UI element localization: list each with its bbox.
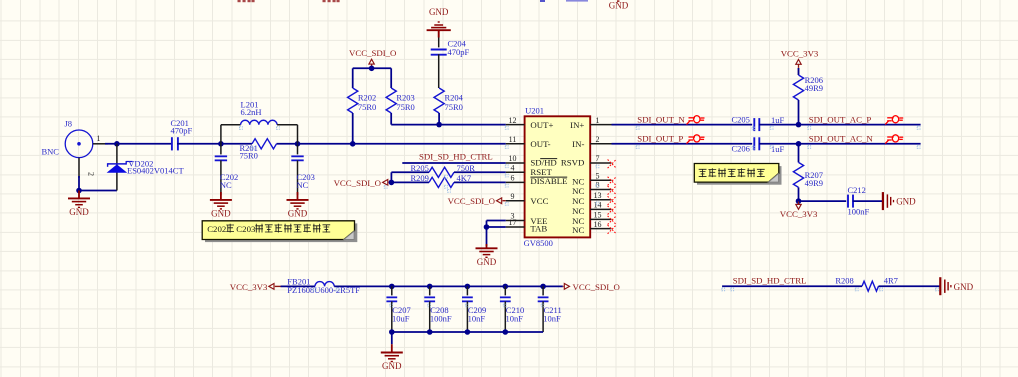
svg-text:13: 13 xyxy=(594,191,602,200)
node: junction VEE/TAB xyxy=(484,224,490,230)
wire: DISABLE branch xyxy=(391,181,429,183)
wire: to C212 xyxy=(799,200,847,202)
svg-text:GND: GND xyxy=(954,282,974,292)
svg-text:NC: NC xyxy=(572,225,584,235)
svg-text:R202: R202 xyxy=(358,92,376,102)
resistor R202 xyxy=(352,68,354,88)
ground below C203 xyxy=(297,192,299,200)
pin 9 of U201 (left) xyxy=(506,200,525,202)
ground below C202 xyxy=(220,192,222,200)
svg-text:SDI_SD_HD_CTRL: SDI_SD_HD_CTRL xyxy=(419,151,493,161)
capacitor C212 xyxy=(847,195,849,208)
svg-text:4R7: 4R7 xyxy=(884,275,898,285)
node: junction bottom rail xyxy=(389,329,395,335)
svg-text:GND: GND xyxy=(477,257,497,267)
svg-text:GND: GND xyxy=(896,197,916,207)
node: junction VCC_SDI_O tap xyxy=(389,180,395,186)
svg-text:470pF: 470pF xyxy=(171,126,193,136)
resistor R203 xyxy=(390,68,392,88)
svg-text:NC: NC xyxy=(572,206,584,216)
node: junction top of C208 xyxy=(427,284,433,290)
node: junction top of C210 xyxy=(503,284,509,290)
svg-text:9: 9 xyxy=(511,192,515,201)
node: junction bottom rail xyxy=(503,329,509,335)
svg-text:GND: GND xyxy=(211,208,231,218)
differential pair marker (SDI_OUT_AC_N) xyxy=(885,135,903,144)
resistor R201 xyxy=(252,139,277,149)
svg-text:10nF: 10nF xyxy=(468,313,486,323)
svg-text:75R0: 75R0 xyxy=(358,102,376,112)
wire: R203/R204 to U201 pin 12 xyxy=(391,124,506,126)
node: junction at BNC ground corner xyxy=(76,188,82,194)
svg-text:17: 17 xyxy=(509,218,517,227)
node: junction at C202 / L201 left xyxy=(218,141,224,147)
svg-text:R209: R209 xyxy=(411,173,429,183)
svg-text:2: 2 xyxy=(87,172,96,176)
svg-text:10nF: 10nF xyxy=(506,313,524,323)
resistor R204 xyxy=(434,88,444,113)
svg-text:J8: J8 xyxy=(65,119,73,129)
node: junction top of C211 xyxy=(540,284,546,290)
node: junction at R207 xyxy=(796,141,802,147)
capacitor C211 xyxy=(542,286,544,295)
svg-text:VCC_SDI_O: VCC_SDI_O xyxy=(334,178,381,188)
pin 7 of U201 (right) xyxy=(590,162,611,164)
pin 13 of U201 (right) xyxy=(590,199,611,201)
svg-text:10nF: 10nF xyxy=(543,313,561,323)
resistor R207 xyxy=(798,144,800,163)
wire: SDI_OUT_P from pin 2 to C206 xyxy=(612,143,753,145)
svg-text:SDI_OUT_P: SDI_OUT_P xyxy=(637,134,683,144)
wire: C212 to ground xyxy=(853,200,883,202)
power port VCC_3V3 (bottom) xyxy=(796,204,801,209)
wire: top cut-off text remnants xyxy=(238,0,241,2)
pin 4 of U201 (left) xyxy=(506,171,525,173)
svg-text:1: 1 xyxy=(97,134,101,143)
svg-text:VCC_SDI_O: VCC_SDI_O xyxy=(349,48,396,58)
svg-text:C202: C202 xyxy=(207,224,226,234)
wire: RSET branch xyxy=(390,172,392,182)
svg-text:RSVD: RSVD xyxy=(561,158,584,168)
no-connect marks on U201 NC pins xyxy=(608,160,617,169)
svg-text:11: 11 xyxy=(509,135,517,144)
svg-text:15: 15 xyxy=(594,211,602,220)
svg-text:4K7: 4K7 xyxy=(457,173,472,183)
svg-text:470pF: 470pF xyxy=(448,47,470,57)
pin 16 of U201 (right) xyxy=(590,228,611,230)
differential pair marker (SDI_OUT_N) xyxy=(687,116,705,125)
differential pair marker (SDI_OUT_P) xyxy=(687,135,705,144)
wire: VCC_3V3 to FB201 xyxy=(281,285,315,287)
svg-text:VCC_3V3: VCC_3V3 xyxy=(780,209,818,219)
pin 2 of U201 (right) xyxy=(590,143,611,145)
diode VD202 (TVS, cathode bar up with zener hooks) xyxy=(116,144,118,191)
svg-text:750R: 750R xyxy=(457,163,476,173)
svg-text:VCC_SDI_O: VCC_SDI_O xyxy=(573,282,620,292)
note: C202/C203 impedance matching (yellow sticky) xyxy=(202,221,357,242)
svg-text:C205: C205 xyxy=(732,114,750,124)
svg-text:NC: NC xyxy=(572,196,584,206)
pin 1 of J8 xyxy=(93,143,108,145)
svg-text:100nF: 100nF xyxy=(848,206,870,216)
svg-text:16: 16 xyxy=(594,220,602,229)
svg-text:75R0: 75R0 xyxy=(396,102,414,112)
svg-text:C203: C203 xyxy=(236,224,256,234)
wire: R208 to ground xyxy=(879,285,941,287)
connector J8 (BNC) xyxy=(65,130,93,158)
wire: R201 span left lead xyxy=(221,143,252,145)
capacitor C206 xyxy=(753,137,755,150)
svg-text:NC: NC xyxy=(297,180,309,190)
note: mind differential polarity (yellow sticky) xyxy=(694,164,781,185)
svg-text:C212: C212 xyxy=(848,185,866,195)
svg-text:4: 4 xyxy=(511,164,515,173)
ground below C207 xyxy=(391,332,393,344)
svg-text:SDI_OUT_AC_P: SDI_OUT_AC_P xyxy=(809,114,872,124)
ground below U201 xyxy=(486,244,488,248)
capacitor C207 xyxy=(391,286,393,295)
svg-text:NC: NC xyxy=(220,180,232,190)
node: junction top of C209 xyxy=(465,284,471,290)
svg-text:R205: R205 xyxy=(411,163,429,173)
svg-text:7: 7 xyxy=(596,154,600,163)
node: junction at VCC_3V3 / C212 xyxy=(796,198,802,204)
resistor R209 xyxy=(429,177,454,187)
svg-text:14: 14 xyxy=(594,201,602,210)
svg-text:1uF: 1uF xyxy=(771,115,785,125)
svg-text:GND: GND xyxy=(382,361,402,371)
pin 8 of U201 (right) xyxy=(590,189,611,191)
svg-text:IN-: IN- xyxy=(572,139,584,149)
wire: VEE pin 3 xyxy=(487,220,506,222)
capacitor C204 xyxy=(438,38,440,48)
capacitor C209 xyxy=(466,286,468,295)
svg-text:10: 10 xyxy=(509,154,517,163)
wire: R201 span right lead xyxy=(277,143,298,145)
svg-text:GND: GND xyxy=(429,7,449,17)
resistor R205 xyxy=(429,167,454,177)
svg-text:ES0402V014CT: ES0402V014CT xyxy=(127,166,184,176)
pin 3 of U201 (left) xyxy=(506,220,525,222)
svg-text:5: 5 xyxy=(596,172,600,181)
node: junction at R206 xyxy=(796,122,802,128)
wire: SDI_SD_HD_CTRL to U201 pin 10 xyxy=(402,162,506,164)
wire: J8 pin2 bottom rail xyxy=(78,176,80,191)
wire: FB201 to VCC_SDI_O port xyxy=(334,285,563,287)
svg-text:OUT+: OUT+ xyxy=(530,120,553,130)
capacitor C210 xyxy=(504,286,506,295)
node: junction top of C207 xyxy=(389,284,395,290)
node: junction at R204 bottom xyxy=(436,122,442,128)
wire: main line to U201 pin 11 xyxy=(298,143,506,145)
svg-text:U201: U201 xyxy=(525,106,544,116)
pin 11 of U201 (left) xyxy=(506,143,525,145)
svg-text:BNC: BNC xyxy=(42,147,60,157)
svg-text:49R9: 49R9 xyxy=(805,178,823,188)
svg-text:NC: NC xyxy=(572,186,584,196)
svg-text:SDI_OUT_AC_N: SDI_OUT_AC_N xyxy=(809,134,874,144)
svg-text:SDI_OUT_N: SDI_OUT_N xyxy=(637,114,685,124)
capacitor C202 xyxy=(220,144,222,155)
svg-text:R203: R203 xyxy=(396,92,414,102)
svg-text:GND: GND xyxy=(288,208,308,218)
svg-text:SDI_SD_HD_CTRL: SDI_SD_HD_CTRL xyxy=(733,275,807,285)
svg-text:49R9: 49R9 xyxy=(805,83,823,93)
op-amp U201 (GV8500 cable driver) body xyxy=(525,116,591,237)
ground right of R208 (bar style) xyxy=(939,277,941,295)
svg-text:VCC_3V3: VCC_3V3 xyxy=(781,48,819,58)
wire: SDI_OUT_AC_N xyxy=(759,143,921,145)
svg-text:6.2nH: 6.2nH xyxy=(241,107,262,117)
compile marks (decorative-ish but present): tiny dashed squares xyxy=(240,126,939,306)
pin 12 of U201 (left) xyxy=(506,124,525,126)
ground below J8 xyxy=(78,191,80,199)
svg-text:VCC: VCC xyxy=(530,196,548,206)
svg-text:GND: GND xyxy=(69,207,89,217)
svg-text:R204: R204 xyxy=(445,92,464,102)
wire: bottom rail of decoupling caps xyxy=(392,331,543,333)
capacitor C208 xyxy=(429,286,431,295)
svg-text:TAB: TAB xyxy=(530,223,547,233)
resistor R206 xyxy=(798,68,800,75)
svg-text:OUT-: OUT- xyxy=(530,139,550,149)
capacitor C205 xyxy=(753,118,755,131)
svg-text:1: 1 xyxy=(596,116,600,125)
node: junction below VCC_SDI_O xyxy=(369,66,375,72)
svg-text:VCC_SDI_O: VCC_SDI_O xyxy=(448,196,495,206)
differential pair marker (SDI_OUT_AC_P) xyxy=(885,116,903,125)
pin 5 of U201 (right) xyxy=(590,179,611,181)
wire: SDI_OUT_AC_P xyxy=(759,124,921,126)
svg-text:GV8500: GV8500 xyxy=(524,238,553,248)
wire: TAB pin 17 xyxy=(487,226,506,228)
svg-text:75R0: 75R0 xyxy=(445,102,463,112)
svg-text:VCC_3V3: VCC_3V3 xyxy=(230,282,268,292)
pin 2 of J8 xyxy=(78,158,80,178)
pin 1 of U201 (right) xyxy=(590,124,611,126)
pin 14 of U201 (right) xyxy=(590,208,611,210)
svg-text:75R0: 75R0 xyxy=(240,151,258,161)
capacitor C203 xyxy=(297,144,299,155)
wire: SDI_OUT_N from pin 1 to C205 xyxy=(612,124,753,126)
pin 15 of U201 (right) xyxy=(590,218,611,220)
wire: J8 pin1 to C201 xyxy=(105,143,172,145)
node: junction at diode VD202 tap xyxy=(114,141,120,147)
svg-text:6: 6 xyxy=(511,174,515,183)
node: junction at C203 / L201 right xyxy=(295,141,301,147)
node: junction bottom rail xyxy=(465,329,471,335)
svg-text:DISABLE: DISABLE xyxy=(530,176,567,186)
node: junction bottom rail xyxy=(427,329,433,335)
svg-text:12: 12 xyxy=(509,116,517,125)
svg-text:C206: C206 xyxy=(732,143,750,153)
wire: SDI_SD_HD_CTRL to R208 xyxy=(722,285,862,287)
ground right of C212 (bar style) xyxy=(882,192,884,210)
svg-text:2: 2 xyxy=(596,135,600,144)
pin 10 of U201 (left) xyxy=(506,162,525,164)
svg-text:R208: R208 xyxy=(835,275,853,285)
svg-text:IN+: IN+ xyxy=(570,120,584,130)
svg-text:100nF: 100nF xyxy=(430,313,452,323)
pin 6 of U201 (left) xyxy=(506,181,525,183)
svg-text:10uF: 10uF xyxy=(392,313,410,323)
svg-text:GND: GND xyxy=(609,1,629,11)
pin 17 of U201 (left) xyxy=(506,226,525,228)
power port VCC_SDI_O (bottom) xyxy=(564,284,569,290)
node: junction at R202 bottom xyxy=(350,141,356,147)
wire: VCC_SDI_O tee xyxy=(353,67,392,69)
